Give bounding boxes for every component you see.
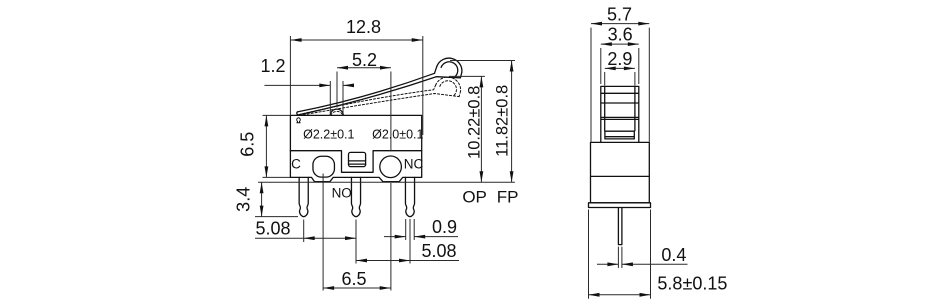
dim 6.5 bottom lines (323, 287, 391, 289)
arrows dim 1.2 (319, 84, 330, 88)
dim 0.9 lines (384, 219, 458, 240)
svg-text:Ø2.2±0.1: Ø2.2±0.1 (303, 128, 354, 142)
arrows dim 6.5 bottom (323, 286, 334, 290)
arrows dim 6.5 height (265, 115, 269, 126)
svg-text:Ø2.0±0.1: Ø2.0±0.1 (372, 128, 423, 142)
dim 12.8 lines (290, 36, 422, 135)
centerline of NC hole / dim 5.2 right extension (390, 72, 392, 291)
dim 5.8 lines (589, 210, 651, 299)
C contact hole (313, 156, 335, 177)
dim 11.82 lines (450, 61, 515, 183)
arrows dim 5.2 (337, 66, 348, 70)
svg-text:5.08: 5.08 (421, 241, 456, 261)
side body divider (591, 175, 650, 177)
arrows dim 11.82 (510, 61, 514, 72)
side lever rungs (601, 93, 639, 119)
svg-text:10.22±0.8: 10.22±0.8 (466, 86, 484, 159)
lever bottom edge (operating position, dashed) (299, 94, 459, 116)
svg-text:NO: NO (332, 186, 352, 201)
lever hook end cut (free) (460, 72, 462, 78)
dim 5.2 lines (337, 68, 391, 108)
arrows dim 0.9 (395, 235, 406, 239)
svg-text:2.9: 2.9 (607, 49, 632, 69)
svg-text:5.8±0.15: 5.8±0.15 (657, 274, 727, 294)
terminal pin C (299, 177, 308, 216)
dim 6.5 height lines (263, 115, 291, 177)
svg-text:FP: FP (497, 187, 519, 206)
lever pivot end cap (297, 112, 298, 115)
svg-text:C: C (291, 156, 301, 171)
lever hook outer arc (free) (437, 58, 462, 72)
terminal seating plane extension line (258, 181, 515, 183)
lever top edge (operating position, dashed) (299, 85, 436, 114)
lever hook inner arc (free) (441, 62, 458, 77)
dim 1.2 lines (264, 81, 348, 116)
dim 10.22 lines (449, 76, 485, 182)
dim 5.7 lines (591, 24, 649, 143)
internal partition line with NO recess (290, 151, 421, 173)
side main body (591, 142, 650, 202)
side base plate (589, 203, 651, 208)
actuator dome (pressed, dashed) (331, 111, 343, 115)
lever top edge (free position) (297, 73, 434, 112)
lever hook inner arc (dashed) (440, 81, 457, 96)
svg-text:6.5: 6.5 (237, 132, 257, 157)
dim 5.08 left lines (255, 220, 356, 264)
switch body outline (290, 115, 421, 181)
dim 2.9 lines (605, 68, 635, 85)
svg-text:NC: NC (404, 156, 424, 171)
arrows dim 5.7 (591, 22, 602, 26)
side inner box (605, 131, 634, 139)
svg-text:5.2: 5.2 (352, 50, 377, 70)
arrows dim 3.4 (260, 182, 264, 193)
svg-text:3.6: 3.6 (608, 25, 633, 45)
svg-text:12.8: 12.8 (346, 17, 381, 37)
dim 3.6 lines (601, 44, 639, 84)
arrows dim 2.9 (605, 67, 616, 71)
svg-text:0.9: 0.9 (432, 217, 457, 237)
svg-text:5.7: 5.7 (607, 5, 632, 25)
NC contact hole (380, 156, 402, 178)
arrows dim 12.8 (291, 38, 302, 42)
svg-text:5.08: 5.08 (255, 219, 290, 239)
side terminal pin (618, 208, 622, 245)
lever bottom edge (free position) (298, 77, 461, 115)
svg-text:6.5: 6.5 (341, 269, 366, 289)
dim 0.4 lines (597, 247, 688, 268)
arrows dim 5.8 (589, 293, 600, 297)
dim 3.4 lines (255, 182, 298, 216)
terminal pin NC (405, 177, 414, 216)
svg-text:11.82±0.8: 11.82±0.8 (494, 85, 512, 157)
lever hook outer arc (dashed) (436, 77, 461, 91)
arrows dim 5.08 left (304, 236, 315, 240)
arrows dim 0.4 (607, 262, 618, 266)
arrows dim 5.08 right (356, 259, 367, 263)
arrows dim 3.6 (601, 42, 612, 46)
lever hook step (free) (435, 66, 437, 73)
side lever collar (601, 86, 639, 142)
dim 5.08 right lines (356, 219, 459, 264)
svg-text:3.4: 3.4 (234, 187, 254, 212)
NO terminal window (349, 152, 366, 166)
svg-text:1.2: 1.2 (260, 56, 285, 76)
lever hook end cut (dashed) (459, 91, 461, 97)
actuator dome (free) (330, 109, 343, 115)
arrows dim 10.22 (480, 76, 484, 87)
svg-text:0.4: 0.4 (661, 245, 686, 265)
mould pip (297, 118, 300, 123)
terminal pin NO (351, 177, 360, 216)
side lever sides (605, 86, 635, 131)
centerline of C hole (322, 174, 324, 291)
svg-text:OP: OP (462, 187, 487, 206)
